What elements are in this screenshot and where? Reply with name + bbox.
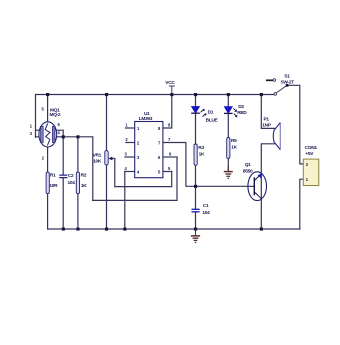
resistor R2 (76, 172, 87, 194)
svg-text:2: 2 (125, 137, 128, 142)
svg-text:Q1: Q1 (245, 162, 251, 168)
svg-text:10K: 10K (93, 159, 102, 165)
svg-text:R1: R1 (50, 173, 56, 179)
svg-text:1K: 1K (231, 145, 237, 151)
wire C2 branch down to bottom rail (62, 137, 64, 229)
wire MQ1 left pin stubs (36, 130, 40, 137)
wire top VCC rail with left drop to MQ1 pins (36, 95, 275, 138)
svg-text:C1: C1 (203, 203, 209, 209)
wire IC pin1 stub (126, 127, 135, 129)
svg-text:1: 1 (30, 123, 33, 128)
svg-text:P1: P1 (264, 117, 270, 123)
wire speaker top terminal from rail (261, 95, 274, 129)
junction VR1 on VCC rail (105, 93, 108, 96)
junction D1 branch on rail (194, 93, 197, 96)
connector CON1 +5V (303, 145, 319, 186)
svg-text:U1: U1 (144, 111, 150, 117)
svg-text:CON1: CON1 (305, 145, 318, 151)
svg-text:D2: D2 (238, 104, 244, 110)
wire MQ1 bottom through R1 to bottom rail (47, 147, 49, 229)
wire MQ1 output run to x93 (57, 137, 93, 201)
svg-text:VR1: VR1 (93, 152, 102, 158)
LED D2 (224, 104, 247, 118)
wire R2 branch down to bottom rail (77, 137, 79, 229)
junction C1 ground node (194, 228, 197, 231)
junction D2 branch on rail (227, 93, 230, 96)
junction R2 on ground rail (76, 228, 79, 231)
wire IC pin7 to Q1 base (163, 143, 254, 187)
junction MQ1 feed on VCC rail (46, 93, 49, 96)
wire IC pin6 stub (163, 156, 177, 158)
svg-text:5: 5 (168, 166, 171, 171)
svg-text:4: 4 (125, 166, 128, 171)
wire y200 run joining pin6 vertical (93, 157, 177, 200)
wire CON1 pin1 down to bottom rail (300, 179, 304, 229)
wire IC pin5 stub (163, 171, 172, 173)
junction R2 branch on sensor output (76, 135, 79, 138)
resistor R5 (227, 138, 238, 159)
junction speaker branch on rail (260, 93, 263, 96)
svg-text:SW-2T: SW-2T (281, 79, 295, 85)
svg-text:104: 104 (68, 180, 76, 186)
svg-text:3: 3 (125, 152, 128, 157)
junction C2 on ground rail (62, 228, 65, 231)
potentiometer VR1 (93, 151, 114, 166)
capacitor C2 (59, 173, 75, 186)
transistor Q1 8550 (243, 162, 267, 201)
svg-text:+5V: +5V (305, 151, 314, 157)
ground under C1 at bottom rail (191, 229, 200, 242)
wire D1 R3 C1 branch (195, 95, 197, 230)
svg-text:1: 1 (125, 123, 128, 128)
junction Q1 emitter on ground rail (260, 228, 263, 231)
speaker P1 (262, 117, 280, 150)
svg-text:8: 8 (168, 122, 171, 127)
switch S1 SW-2T (266, 74, 294, 96)
svg-text:8550: 8550 (243, 169, 253, 175)
svg-text:10R: 10R (49, 183, 58, 189)
op-amp U1 LM393 (125, 111, 173, 178)
wire IC pin4 stub (125, 171, 135, 173)
svg-text:104: 104 (202, 210, 210, 216)
svg-text:4: 4 (58, 130, 61, 135)
resistor R1 (46, 172, 58, 194)
svg-text:C2: C2 (68, 173, 74, 179)
svg-text:7: 7 (168, 137, 171, 142)
svg-text:6: 6 (58, 122, 61, 127)
wire IC pin2 stub (126, 142, 135, 144)
wire S1 to right rail down to CON1 pin2 (287, 85, 303, 164)
junction base line with R3-C1 node (194, 185, 197, 188)
MQ1 gas sensor MQ-2 (30, 107, 61, 161)
wire MQ1 top feed (47, 95, 49, 123)
svg-text:MQ-2: MQ-2 (50, 112, 61, 118)
wire speaker bottom terminal to Q1 collector and bottom rail (261, 144, 274, 229)
wire VR1 wiper to pin5 run (110, 159, 172, 187)
wire IC pin8 to VCC (163, 95, 172, 129)
svg-text:BLUE: BLUE (206, 117, 219, 123)
junction C2 branch on sensor output (62, 135, 65, 138)
svg-text:D1: D1 (208, 109, 214, 115)
junction pin4 wire on ground rail (123, 228, 126, 231)
LED D1 (191, 107, 218, 124)
ground under R5 (224, 166, 233, 178)
svg-text:1K: 1K (199, 151, 205, 157)
wire bottom ground rail (48, 228, 300, 230)
capacitor C1 (192, 203, 211, 216)
wire VR1 vertical from top rail to bottom rail (106, 95, 108, 230)
svg-text:1NP: 1NP (262, 123, 272, 129)
svg-text:LM393: LM393 (139, 116, 153, 122)
resistor R3 (194, 144, 205, 165)
svg-text:R5: R5 (231, 138, 237, 144)
svg-text:2: 2 (42, 156, 45, 161)
svg-text:5: 5 (42, 107, 45, 112)
junction VR1 on ground rail (105, 228, 108, 231)
svg-text:VCC: VCC (165, 80, 175, 86)
wire IC pin4 drop to bottom rail (124, 172, 126, 230)
svg-text:R3: R3 (198, 145, 204, 151)
wire D2 R5 branch (227, 95, 229, 172)
junction VCC symbol on rail (170, 93, 173, 96)
svg-text:6: 6 (169, 151, 172, 156)
svg-text:S1: S1 (284, 74, 290, 80)
svg-text:RED: RED (237, 110, 247, 116)
svg-text:3: 3 (30, 131, 33, 136)
wire MQ1 right pins: upper stub joining lower wire (57, 130, 64, 137)
svg-text:R2: R2 (81, 173, 87, 179)
svg-text:1K: 1K (81, 183, 87, 189)
wire IC pin3 stub (125, 156, 135, 158)
power VCC symbol (165, 80, 175, 94)
